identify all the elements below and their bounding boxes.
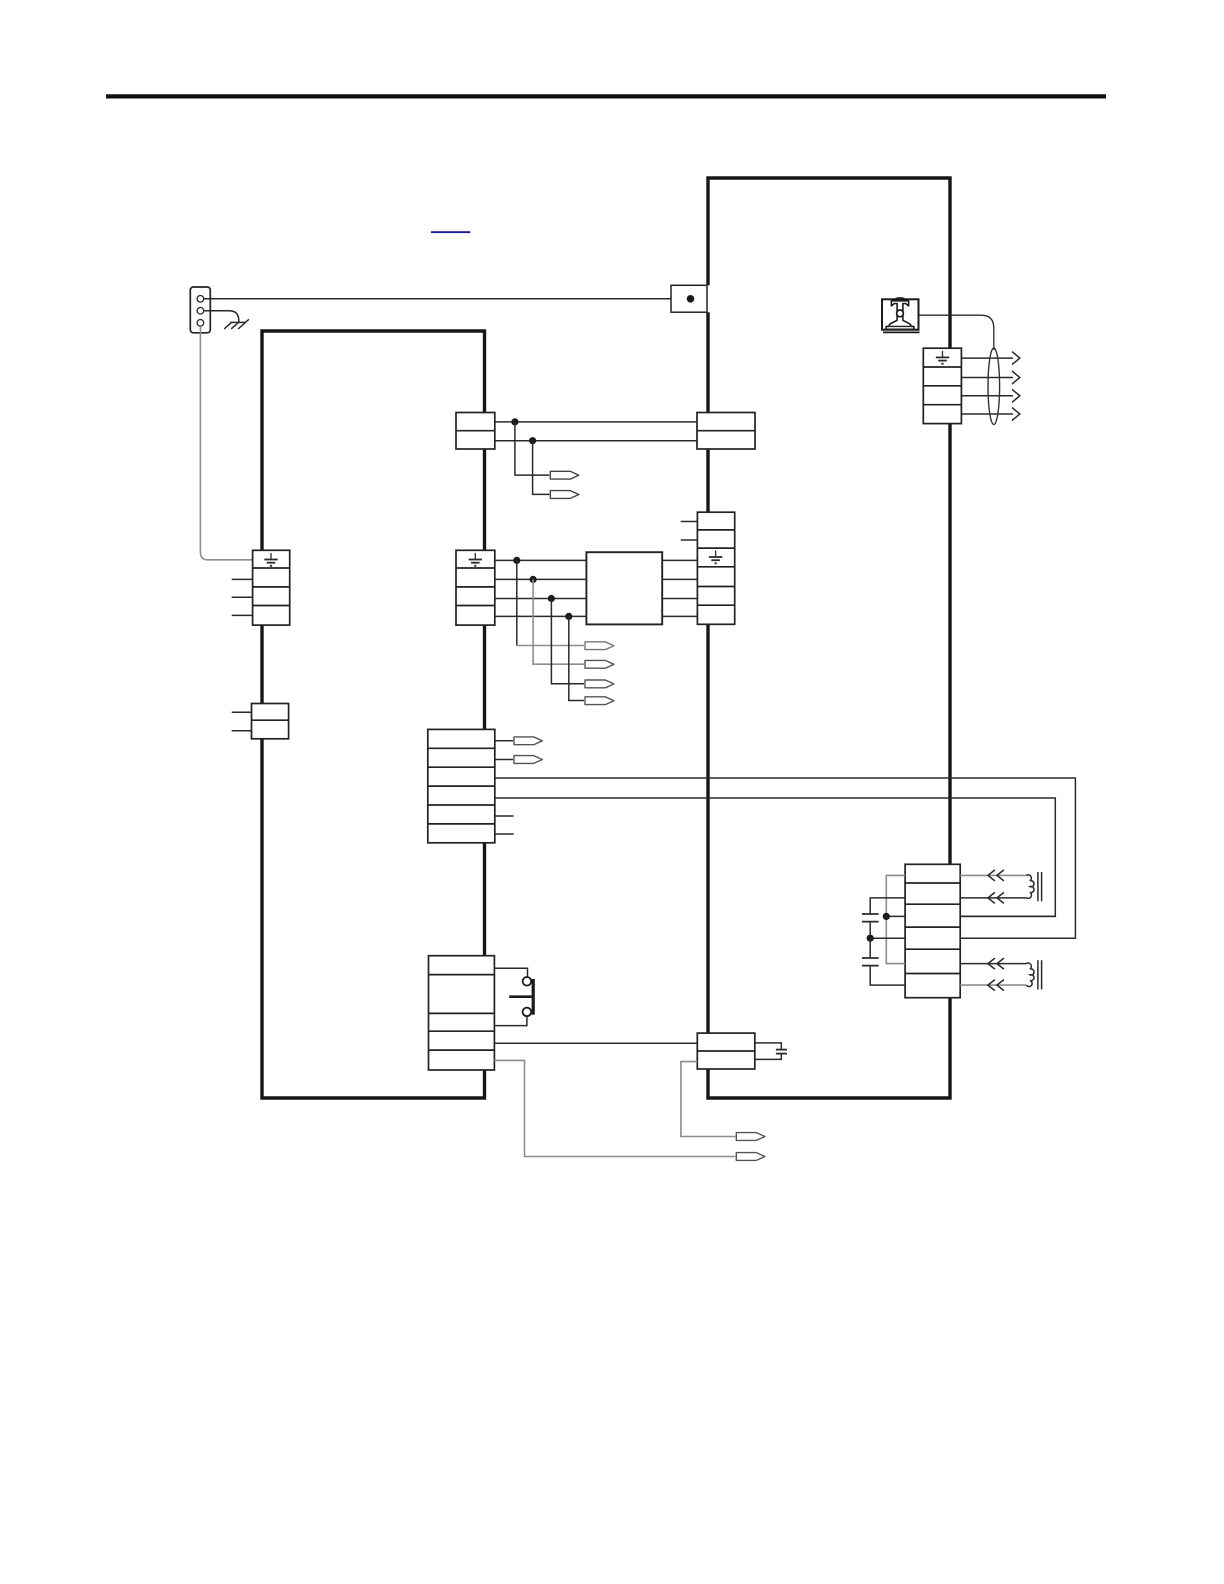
ground symbol in CN-R2 [709, 551, 722, 564]
node dot D [530, 576, 537, 583]
wire CN-R5 row1 heater (gray) [960, 874, 1026, 876]
wire CN-R4 to terminal T9 (gray) [681, 1062, 735, 1137]
pin stubs CN-R2 [681, 522, 698, 541]
chassis ground [224, 319, 249, 329]
terminal T10 [736, 1153, 765, 1161]
terminal T7 [514, 737, 542, 745]
wire microswitch bottom to CN-L4 [494, 1016, 527, 1025]
relay block K1 [586, 552, 662, 624]
connector CN-R1 (2-pin) [697, 413, 755, 450]
wire CN-L3 row4 long to CN-R5 row3 [495, 798, 1056, 916]
connector CN-R3 (4-pin, ground) [923, 348, 961, 423]
wire CN-R3 row2 arrow [961, 371, 1019, 384]
wire plug pin3 to CN-L1 (gray) [200, 326, 252, 560]
wire plug line to junction [204, 298, 671, 300]
wire CN-R5 row3 stub left [886, 915, 905, 917]
node dot B [529, 437, 536, 444]
wire node E to terminal T5 [551, 599, 584, 684]
right PCB box outline [708, 178, 950, 1098]
wire CN-R5 row3 stub right [960, 915, 1055, 917]
wire CN-M1 to CN-R1 line2 [495, 440, 697, 442]
wire CN-L4 to CN-R4 [494, 1042, 697, 1044]
wire CN-R3 row4 arrow [961, 408, 1019, 421]
wire CN-M1 to CN-R1 line1 [495, 421, 697, 423]
terminal T2 [550, 491, 579, 499]
pin stubs CN-L1 [232, 579, 253, 615]
capacitor C2 [755, 1043, 787, 1060]
capacitor C4 [862, 958, 879, 966]
node dot F [565, 613, 572, 620]
wire CN-R5 row5 heater [960, 963, 1026, 965]
node dot H [867, 935, 874, 942]
wire node B to terminal T2 [533, 441, 550, 495]
wire node F to terminal T6 [569, 616, 584, 700]
AC power plug P1 [190, 287, 210, 333]
pin stub CN-L3 row5 [495, 815, 514, 817]
heater coil HC1 [1026, 872, 1041, 901]
wire CN-L4 to terminal T10 (gray) [494, 1060, 735, 1156]
connector CN-L4 (switch block) [429, 956, 495, 1070]
wire node H to capacitor C4 [869, 938, 871, 957]
wire TCO1 to shield loop [919, 315, 994, 350]
wire CN-R5 row2 heater [960, 897, 1026, 899]
terminal T8 [514, 756, 542, 764]
wire capacitor C3 to node H [869, 922, 871, 938]
node dot C [513, 557, 520, 564]
left PCB box outline [262, 331, 485, 1098]
wire to microswitch top [494, 968, 527, 977]
wire node D to terminal T4 (gray) [533, 579, 584, 664]
node junction dot [687, 295, 695, 303]
connector CN-L2 (2-pin) [252, 704, 289, 739]
connector CN-R2 (6-pin, ground) [697, 512, 734, 624]
ground symbol in CN-R3 [936, 351, 949, 364]
wire CN-R3 row1 arrow [961, 352, 1019, 365]
wire CN-L3 row2 stub [495, 759, 513, 761]
terminal T3 [585, 642, 614, 650]
chevrons row5 [988, 958, 1004, 969]
connector CN-M2 (4-pin, ground) [456, 550, 495, 625]
terminal T4 [585, 660, 614, 668]
wire CN-M2 row4 to K1 [495, 615, 587, 617]
terminal T6 [585, 697, 614, 705]
wire node A to terminal T1 [515, 422, 549, 475]
node dot A [511, 418, 518, 425]
thermal cutout TCO1 [882, 298, 920, 333]
wire CN-R5 row4 stub left [870, 937, 905, 939]
wire K1 to CN-R2 row4 [662, 615, 697, 617]
wire CN-R3 row3 arrow [961, 389, 1019, 402]
wire K1 to CN-R2 row1 [662, 559, 697, 561]
chevrons row2 [988, 892, 1004, 903]
cable shield loop [988, 348, 1000, 424]
wire CN-R5 row1 to row5 left loop (gray) [886, 875, 905, 963]
wire capacitor C4 to CN-R5 row6 [870, 966, 905, 985]
terminal T9 [736, 1133, 765, 1141]
wire K1 to CN-R2 row3 [662, 598, 697, 600]
microswitch SW1 [509, 977, 533, 1016]
terminal T5 [585, 680, 614, 688]
link underline [431, 231, 470, 233]
wire CN-R5 row6 heater (gray) [960, 984, 1026, 986]
wire CN-L3 row1 stub [495, 740, 513, 742]
connector CN-L1 (4-pin, ground) [253, 550, 290, 625]
wire plug pin2 to chassis ground [204, 311, 239, 323]
pin stub CN-L3 row6 [495, 833, 514, 835]
ground symbol in CN-L1 [264, 553, 277, 566]
wire CN-M2 row3 to K1 [495, 598, 587, 600]
connector CN-R5 (6-pin, magnetron block) [905, 864, 960, 997]
ground symbol in CN-M2 [469, 553, 482, 566]
connector CN-M1 (2-pin) [456, 413, 495, 450]
terminal T1 [550, 471, 579, 479]
chevrons row1 [988, 870, 1004, 881]
heater coil HC2 [1026, 960, 1041, 989]
wire CN-M2 row1 to K1 [495, 559, 587, 561]
chevrons row6 [988, 980, 1004, 991]
wire CN-R5 row4 stub right [960, 937, 1075, 939]
wire node C to terminal T3 [517, 560, 584, 645]
pin stubs CN-L2 [232, 712, 252, 731]
node dot E [548, 595, 555, 602]
wire CN-R5 row2 to capacitor C3 [870, 898, 905, 913]
connector CN-R4 (2-pin) [697, 1033, 755, 1069]
header rule [106, 94, 1106, 98]
capacitor C3 [862, 914, 879, 922]
wire CN-L3 row3 long to CN-R5 row4 [495, 778, 1076, 938]
wire K1 to CN-R2 row2 [662, 578, 697, 580]
junction box JB1 [671, 285, 707, 312]
node dot G [883, 913, 890, 920]
connector CN-L3 (6-pin) [428, 729, 495, 842]
wire CN-M2 row2 to K1 [495, 578, 587, 580]
